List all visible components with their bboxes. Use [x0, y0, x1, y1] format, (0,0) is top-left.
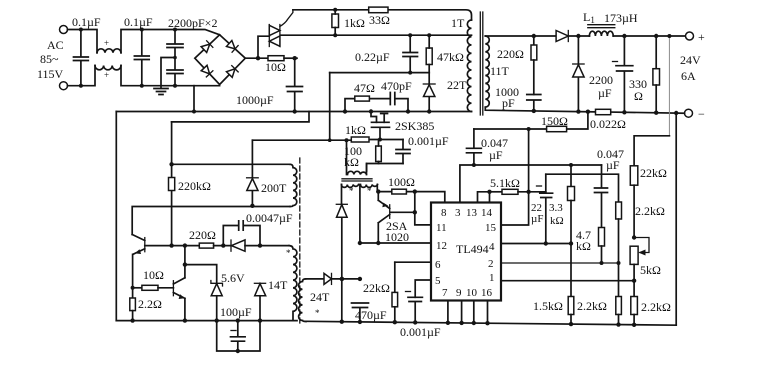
svg-text:+: +	[698, 30, 705, 44]
diode D6 rectifier	[556, 31, 589, 42]
svg-text:10Ω: 10Ω	[265, 60, 286, 74]
svg-text:0.1µF: 0.1µF	[72, 15, 101, 29]
node diode right	[258, 243, 262, 247]
svg-text:−: −	[698, 107, 705, 121]
wire 200T top row	[172, 163, 290, 165]
node base	[413, 210, 417, 214]
node plus sense	[667, 34, 671, 38]
svg-text:470pF: 470pF	[381, 79, 412, 93]
diode D7 freewheel	[573, 34, 584, 114]
wire top feed rail	[293, 10, 472, 20]
resistor R17 22k drive	[392, 262, 398, 324]
svg-text:1T: 1T	[451, 16, 465, 30]
svg-text:47Ω: 47Ω	[354, 81, 375, 95]
svg-text:2.2kΩ: 2.2kΩ	[641, 300, 671, 314]
bridge diode D2 (T to R)	[226, 40, 238, 52]
transistor Q5 2SA1020	[376, 192, 390, 246]
svg-text:µF: µF	[598, 86, 612, 100]
svg-text:1000µF: 1000µF	[236, 93, 274, 107]
wire 220ohm to diode	[214, 245, 231, 247]
winding 200T	[290, 164, 297, 206]
wire right ground drop	[675, 113, 677, 325]
resistor R13 220k	[169, 122, 175, 248]
winding 24T	[299, 279, 306, 322]
svg-text:22kΩ: 22kΩ	[363, 281, 390, 295]
bridge rectifier diamond	[195, 35, 246, 85]
label 4.7k	[576, 228, 591, 253]
svg-text:kΩ: kΩ	[576, 239, 591, 253]
wire pin12 row	[360, 242, 431, 244]
capacitor C2 0.1uF	[134, 28, 149, 88]
resistor R1 10ohm	[268, 56, 284, 61]
svg-text:16: 16	[481, 287, 493, 299]
wire output minus rail	[485, 107, 684, 113]
node pin14	[487, 190, 491, 194]
svg-text:220Ω: 220Ω	[189, 228, 216, 242]
svg-text:47kΩ: 47kΩ	[437, 50, 464, 64]
capacitor C15 22uF	[537, 174, 553, 246]
wire bridge plus to 10ohm	[245, 57, 268, 59]
svg-text:0.001µF: 0.001µF	[400, 325, 441, 339]
label 0.047uF right	[597, 147, 624, 172]
capacitor C1 0.1uF	[74, 28, 89, 88]
wire mid link row	[546, 174, 619, 202]
svg-text:kΩ: kΩ	[550, 215, 564, 227]
svg-text:*: *	[349, 186, 354, 196]
node pin8 branch	[413, 189, 417, 193]
wire gate feed	[253, 139, 404, 142]
node triac left	[256, 56, 260, 60]
svg-text:13: 13	[466, 207, 478, 219]
diode D5 clamp	[423, 73, 435, 114]
resistor R6 1k gate	[351, 137, 369, 142]
svg-text:0.1µF: 0.1µF	[124, 15, 153, 29]
resistor R23 2.2k mid	[616, 202, 622, 327]
resistor R2 33ohm	[369, 7, 388, 13]
diode D9	[231, 240, 289, 251]
label AC 85~115V	[37, 38, 64, 81]
AC input terminal top	[60, 26, 68, 34]
wire Q1 base row	[145, 245, 200, 247]
node minus right	[674, 111, 678, 115]
wire 0.22uF rail drop to gate wire	[329, 73, 331, 141]
svg-text:150Ω: 150Ω	[541, 114, 568, 128]
bridge diode D1 (L to T)	[201, 41, 213, 53]
zener D10 5.6V	[211, 281, 223, 323]
svg-text:7: 7	[442, 287, 448, 299]
label 3.3k	[549, 202, 564, 227]
svg-text:6A: 6A	[681, 69, 696, 83]
wire left side rail	[115, 112, 117, 321]
transformer T1 core	[480, 12, 483, 115]
svg-text:1.5kΩ: 1.5kΩ	[533, 299, 563, 313]
potentiometer RP 5k	[630, 238, 649, 327]
resistor R8 220ohm	[531, 36, 537, 95]
svg-text:*: *	[315, 308, 320, 318]
resistor R14 220ohm	[199, 243, 213, 248]
svg-text:0.0047µF: 0.0047µF	[246, 211, 293, 225]
svg-text:TL494: TL494	[456, 242, 489, 256]
svg-text:Ω: Ω	[634, 89, 643, 103]
inductor L common-mode choke	[95, 38, 121, 80]
svg-text:15: 15	[485, 222, 497, 234]
svg-text:22kΩ: 22kΩ	[640, 166, 667, 180]
wire pin4 row	[501, 243, 571, 245]
wire drive node	[377, 192, 445, 203]
resistor R18 100ohm	[392, 189, 407, 194]
svg-text:11: 11	[436, 222, 447, 234]
svg-text:µF: µF	[531, 213, 543, 225]
resistor R19 5.1k	[490, 189, 546, 194]
wire snubber rail 0.22uF	[330, 72, 430, 74]
capacitor C6 470pF	[390, 93, 410, 114]
resistor R20 3.3k	[568, 165, 575, 246]
label 0.047uF left	[481, 136, 508, 162]
resistor R15 10ohm	[131, 285, 174, 290]
wire 150ohm row	[474, 112, 588, 129]
resistor R7 100k	[376, 140, 382, 164]
svg-text:µF: µF	[606, 158, 620, 172]
wire pin6	[395, 261, 431, 263]
label 22uF	[531, 202, 543, 225]
capacitor C8 1000pF	[527, 95, 541, 114]
svg-text:µF: µF	[489, 148, 503, 162]
svg-text:1kΩ: 1kΩ	[345, 123, 366, 137]
svg-text:24V: 24V	[680, 53, 701, 67]
wire pin13 pin14 top	[478, 192, 490, 203]
transistor Q2	[173, 243, 187, 322]
label 2200uF	[589, 73, 613, 100]
wire bridge minus drop	[193, 86, 195, 112]
node 5.1k right	[526, 190, 530, 194]
svg-text:pF: pF	[502, 96, 515, 110]
op-amp U1 TL494 body	[431, 203, 501, 301]
svg-text:2200pF×2: 2200pF×2	[168, 16, 217, 30]
svg-text:6: 6	[435, 259, 441, 271]
wire divider top link	[634, 136, 669, 166]
svg-text:2.2Ω: 2.2Ω	[138, 297, 162, 311]
capacitor C12 0.0047uF	[223, 221, 260, 246]
svg-text:10: 10	[466, 287, 478, 299]
svg-text:5kΩ: 5kΩ	[640, 263, 661, 277]
node pin2 x618	[617, 261, 621, 265]
svg-text:+: +	[104, 38, 109, 48]
transformer T2 primary windings	[342, 185, 378, 244]
wire secondary ground rail	[306, 321, 676, 325]
svg-text:2.2kΩ: 2.2kΩ	[577, 299, 607, 313]
svg-text:470µF: 470µF	[355, 308, 387, 322]
svg-text:0.022Ω: 0.022Ω	[590, 117, 626, 131]
node 3.3k top	[569, 163, 573, 167]
label 24V 6A	[680, 53, 701, 83]
svg-text:0.001µF: 0.001µF	[408, 134, 449, 148]
transformer T2 core	[342, 179, 372, 181]
svg-text:3: 3	[455, 207, 461, 219]
bridge diode D3 (L to B)	[201, 65, 213, 77]
svg-text:14T: 14T	[268, 278, 288, 292]
diode D12 aux rectifier	[306, 273, 362, 284]
core dashed aux	[299, 158, 301, 325]
svg-text:0.22µF: 0.22µF	[355, 50, 390, 64]
svg-text:11T: 11T	[490, 64, 510, 78]
capacitor C5 0.22uF	[403, 33, 418, 74]
transformer T1 secondary 11T	[485, 36, 489, 107]
triac Q3 inrush bypass	[258, 10, 293, 58]
inductor L1 173uH	[588, 25, 615, 36]
node gate	[378, 138, 382, 142]
label 1000pF	[495, 85, 519, 110]
node cap left	[221, 243, 225, 247]
svg-text:85~: 85~	[40, 52, 59, 66]
svg-text:220Ω: 220Ω	[497, 47, 524, 61]
transistor Q1	[132, 235, 145, 288]
diode D8 feedback	[247, 140, 259, 208]
capacitor C4 1000uF	[287, 58, 303, 114]
node bridge minus	[192, 110, 196, 114]
resistor R11 150ohm	[547, 126, 567, 131]
svg-text:2200: 2200	[589, 73, 613, 87]
wire primary ground rail	[116, 320, 297, 322]
wire pin15 riser	[501, 129, 529, 225]
label 100k	[344, 144, 362, 169]
wire zener feed row	[185, 265, 217, 284]
wire pin2 row	[501, 262, 619, 264]
node 150 left drop	[527, 127, 531, 131]
capacitor C11 0.047uF right	[595, 165, 608, 228]
node T2 top	[345, 138, 349, 142]
capacitor C7 0.001uF gate	[396, 140, 410, 164]
resistor R16 2.2ohm	[130, 288, 136, 323]
svg-text:3.3: 3.3	[549, 202, 563, 214]
AC input terminal bottom	[60, 82, 68, 90]
svg-text:8: 8	[441, 207, 447, 219]
wire top input rail	[68, 30, 220, 53]
svg-text:100Ω: 100Ω	[388, 175, 415, 189]
wire startup row	[172, 112, 309, 122]
resistor R5 47ohm	[343, 96, 390, 114]
wire pin5	[415, 280, 431, 297]
resistor R9 330ohm	[653, 34, 660, 115]
svg-text:173µH: 173µH	[604, 11, 638, 25]
svg-text:33Ω: 33Ω	[369, 13, 390, 27]
transformer T2 secondary winding	[347, 140, 367, 174]
wire 200T bottom row	[132, 207, 290, 235]
capacitor C10 0.047uF left	[467, 129, 482, 167]
svg-text:2.2kΩ: 2.2kΩ	[635, 204, 665, 218]
node emitter	[376, 189, 380, 193]
wire pins 7 9 10 16	[446, 301, 490, 326]
svg-text:+: +	[104, 70, 109, 80]
node DC bus	[293, 56, 297, 60]
wire base link	[391, 192, 432, 225]
svg-text:5.6V: 5.6V	[221, 271, 245, 285]
svg-text:5: 5	[435, 275, 441, 287]
wire pin1 row	[501, 280, 634, 282]
svg-text:24T: 24T	[310, 290, 330, 304]
resistor R4 47k	[426, 33, 432, 72]
svg-text:AC: AC	[47, 38, 64, 52]
output terminal plus	[686, 32, 694, 40]
svg-text:200T: 200T	[261, 181, 287, 195]
diode D13 drive clamp	[336, 204, 347, 324]
bridge diode D4 (B to R)	[226, 66, 238, 78]
wire sense divider feed	[668, 36, 670, 136]
capacitor C9 2200uF	[613, 34, 633, 115]
transformer T1 primary winding 1T+22T	[467, 20, 471, 112]
svg-text:22T: 22T	[447, 78, 467, 92]
svg-text:115V: 115V	[37, 67, 64, 81]
resistor R3 1k vertical	[332, 8, 339, 37]
capacitor C14 470uF	[352, 241, 369, 324]
svg-text:*: *	[286, 248, 291, 258]
svg-text:1kΩ: 1kΩ	[344, 16, 365, 30]
svg-text:1: 1	[489, 272, 495, 284]
wire main negative rail	[116, 111, 471, 113]
wire output plus rail	[613, 35, 685, 37]
wire gate bottom	[367, 164, 403, 172]
resistor R10 0.022ohm sense	[596, 109, 611, 114]
svg-text:12: 12	[436, 240, 447, 252]
resistor R22 22k divider	[630, 166, 638, 240]
svg-text:1020: 1020	[385, 230, 409, 244]
zener D11	[254, 283, 265, 323]
capacitor C13 100uF in frame	[217, 318, 260, 353]
label 330ohm	[629, 77, 647, 103]
label 2SA1020	[385, 219, 409, 244]
wire pin3 row	[460, 165, 602, 203]
resistor R21 1.5k	[568, 244, 574, 327]
winding 14T	[289, 246, 297, 321]
node 150 riser	[586, 110, 590, 114]
node pin1 end	[632, 279, 636, 283]
svg-text:4: 4	[489, 241, 495, 253]
wire secondary top	[485, 35, 556, 37]
wire bottom input rail	[68, 66, 220, 86]
output terminal minus	[685, 109, 693, 117]
wire tap rail	[281, 34, 472, 36]
svg-text:5.1kΩ: 5.1kΩ	[490, 176, 520, 190]
node snubber top	[532, 34, 536, 38]
svg-text:9: 9	[456, 287, 462, 299]
resistor R12 4.7k	[599, 228, 605, 266]
capacitor C3 2200pF x2 pair	[167, 28, 183, 88]
svg-text:14: 14	[481, 207, 493, 219]
ground chassis	[154, 58, 175, 95]
svg-text:100µF: 100µF	[220, 305, 252, 319]
svg-text:2SK385: 2SK385	[395, 119, 434, 133]
svg-text:220kΩ: 220kΩ	[178, 179, 211, 193]
wire 10ohm to bus	[284, 57, 297, 59]
svg-text:*: *	[367, 186, 372, 196]
svg-text:10Ω: 10Ω	[143, 268, 164, 282]
transistor Q4 2SK385 mosfet	[369, 109, 390, 139]
svg-text:2: 2	[488, 258, 494, 270]
capacitor C16 0.001uF pin5	[406, 292, 423, 325]
